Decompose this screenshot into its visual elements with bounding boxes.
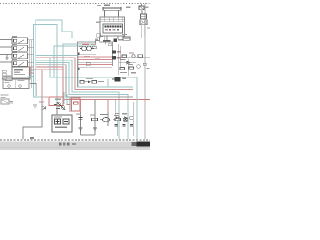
right cluster row 1 resistors — [122, 53, 143, 58]
compressor box P1 — [52, 115, 72, 132]
wire box P1 feed — [56, 103, 58, 115]
ground G4 left branch — [5, 55, 8, 60]
wire A1 pin lead 1 — [105, 36, 107, 40]
container pin mark lower — [77, 68, 79, 70]
motor circle cluster mid — [79, 44, 96, 51]
status bar divider — [0, 146, 150, 148]
wire right cluster feeds — [119, 44, 129, 76]
wire teal bus 1 — [34, 25, 58, 104]
solenoid Y1 dark component — [112, 77, 126, 82]
wire container line 5 — [78, 64, 112, 66]
label small mid-left — [33, 105, 37, 108]
wire step from A1 to cluster — [96, 37, 104, 44]
thermo block chain mid — [80, 78, 104, 83]
connector J box left — [3, 76, 29, 89]
control unit A1 top-right block — [96, 17, 125, 36]
terminal bar below A1 — [95, 34, 110, 45]
label red small left — [44, 96, 48, 97]
diode row bottom right — [115, 113, 133, 119]
wire stepped bottom left — [23, 104, 42, 139]
relay K4 — [12, 59, 28, 66]
junction box container mid — [78, 42, 113, 87]
wire bottom right drops — [115, 100, 133, 136]
scrollbar dark thumb — [132, 142, 151, 147]
wire container line 1 — [78, 54, 96, 56]
wire A1 pin lead 2 — [117, 36, 119, 39]
capacitor C1 — [76, 114, 83, 120]
wire connector J to bus — [30, 84, 36, 97]
wire relay lead 4 — [0, 61, 12, 63]
sheet right border — [144, 4, 146, 140]
wire red horizontal left — [34, 70, 64, 104]
valve Y2 top right — [139, 4, 148, 10]
right cluster row 2 components — [119, 59, 150, 73]
wire fuse left lead — [104, 10, 106, 17]
wire teal corner branch — [54, 46, 96, 77]
wire container line 2 — [78, 56, 112, 58]
wire relay lead 2 — [0, 46, 12, 48]
wire relay pin stubs — [28, 40, 34, 63]
fuse F1 — [97, 5, 121, 11]
sheet top dashed border — [0, 3, 150, 5]
terminal pair row bottom right — [115, 125, 134, 127]
wire bottom drop 2 — [94, 100, 96, 135]
wire fuse right lead — [118, 10, 120, 17]
connector pin blob row 3 — [112, 56, 121, 59]
terminal strip X1 — [2, 70, 6, 79]
container pin mark upper — [77, 52, 80, 55]
status bar — [0, 142, 150, 151]
valve E1 ellipse — [100, 114, 110, 122]
wire teal right vertical — [136, 77, 138, 139]
small symbols above right cluster — [122, 34, 130, 41]
ground G3 bottom — [93, 128, 97, 131]
status bar icons — [59, 143, 76, 146]
wire container line 3 — [78, 59, 112, 61]
coil L1 top right stack — [140, 10, 150, 29]
wire S-route 6 red — [36, 67, 150, 100]
label red mid — [84, 56, 100, 59]
wire Y2 leads down — [142, 25, 145, 38]
relay K2 — [12, 44, 28, 51]
resistor R1 bottom — [90, 115, 98, 121]
wire bottom drop 1 — [80, 100, 82, 135]
relay K3 — [12, 51, 28, 58]
highlight rect red A — [49, 97, 63, 106]
wire teal drop left 1 — [63, 92, 65, 104]
wire teal long loop — [50, 58, 137, 77]
wire container line 6 — [78, 66, 112, 68]
wire S-route 1 teal — [36, 56, 133, 88]
connector pin blob row 1 — [114, 39, 123, 42]
wire relay pin vertical 2 — [30, 40, 32, 89]
wire S-route 3 teal — [36, 60, 119, 139]
wire number labels red stack — [29, 67, 34, 78]
transistor Q1 cluster — [54, 99, 71, 110]
lamp H1 bottom right — [123, 118, 127, 122]
wire S-route 2 red — [36, 58, 133, 90]
wire bottom rail — [81, 134, 96, 136]
ground G2 bottom — [79, 128, 83, 131]
wire teal bus 2 — [36, 20, 72, 97]
wire relay pin vertical 1 — [28, 40, 30, 85]
highlight rect red B — [72, 98, 81, 111]
wire teal corner branch 2 — [63, 44, 96, 77]
wire teal region top mid — [77, 79, 108, 87]
wire S-route 4 teal — [36, 62, 128, 139]
wire relay lead 1 — [0, 39, 12, 41]
sensor B2 cluster lower-left — [1, 95, 14, 105]
module M1 box — [12, 67, 30, 79]
component stub mid container — [86, 63, 90, 66]
glyph above ruler — [30, 137, 34, 139]
wire container line 4 — [78, 61, 112, 63]
wire teal drop left 2 — [66, 95, 68, 105]
diode D1 left — [39, 102, 46, 110]
wire right long horizontal — [116, 57, 150, 59]
wire relay lead 3 — [0, 54, 12, 56]
label top right — [126, 7, 131, 8]
wire S-route 5 gray — [36, 65, 133, 97]
scrollbar ruler dashes — [0, 139, 150, 141]
wire gray drop left — [69, 97, 71, 112]
connector pin blob row 2 — [112, 51, 121, 54]
relay K1 — [12, 36, 28, 44]
resistor R2 bottom right — [113, 115, 121, 121]
wire bottom drop 3 — [107, 100, 109, 126]
